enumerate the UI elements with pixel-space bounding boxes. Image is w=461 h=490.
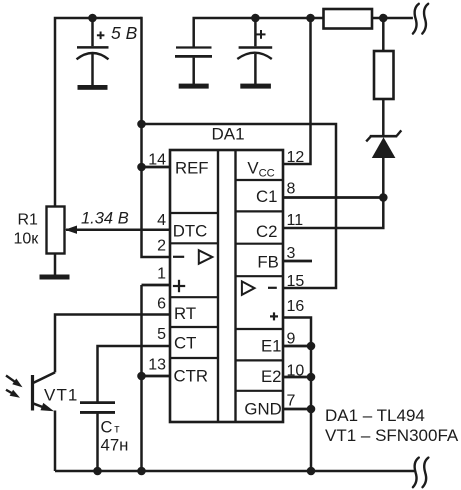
label 47n value: [101, 435, 129, 454]
wire pin 7 stub: [283, 408, 311, 411]
wire R3 to zener: [382, 99, 385, 136]
svg-text:GND: GND: [244, 399, 281, 418]
wire CT cap to pin 5: [98, 346, 171, 402]
pin number 3: [287, 245, 296, 262]
wire Vcc rail top-middle: [194, 18, 324, 47]
svg-text:13: 13: [148, 357, 166, 374]
node junction dot R3 top: [379, 14, 388, 23]
pin number 13: [148, 357, 166, 374]
svg-text:5 В: 5 В: [111, 23, 138, 43]
wire REF rail top-left: [55, 18, 142, 207]
pin number 15: [287, 273, 305, 290]
label VT1 SFN300FA: [325, 426, 459, 445]
svg-text:8: 8: [287, 181, 296, 198]
wire R3 top lead: [382, 18, 385, 51]
amp triangle error amp 1: [199, 250, 213, 263]
svg-text:47н: 47н: [101, 435, 129, 454]
wire pin 3 stub: [283, 260, 312, 263]
svg-text:CT: CT: [174, 334, 196, 353]
capacitor C1 electrolytic 5V: [77, 18, 109, 86]
ground bar under C1: [78, 85, 108, 90]
wire pin 1 stub: [142, 284, 171, 287]
svg-text:E2: E2: [261, 367, 282, 386]
node junction dot 5V cap to rail: [88, 14, 97, 23]
ground bar under C2: [179, 84, 209, 89]
svg-text:10: 10: [287, 363, 305, 380]
label C2: [256, 222, 277, 241]
wire R1 bottom lead: [54, 254, 57, 276]
wire R1 wiper to pin 4 DTC: [65, 226, 170, 234]
svg-text:DA1: DA1: [212, 125, 245, 144]
svg-text:10к: 10к: [14, 231, 40, 248]
label R1: [18, 212, 39, 229]
transistor VT1 optocoupler phototransistor: [33, 372, 56, 471]
label E2: [261, 367, 282, 386]
wire rail right of R2: [372, 17, 413, 20]
wire pin 9 stub: [283, 345, 311, 348]
capacitor C3 electrolytic plus sign: [257, 30, 266, 39]
capacitor CT timing: [80, 403, 115, 471]
label Vcc: [247, 159, 274, 180]
svg-text:5: 5: [157, 326, 166, 343]
svg-text:DA1 – TL494: DA1 – TL494: [325, 406, 425, 425]
node junction dot pin 10: [307, 373, 316, 382]
label CT capacitor: [101, 418, 121, 436]
node junction dot CT to rail: [93, 467, 102, 476]
svg-text:R1: R1: [18, 212, 39, 229]
resistor R3 vertical: [374, 51, 394, 99]
resistor R1 potentiometer: [47, 207, 65, 254]
svg-text:3: 3: [287, 245, 296, 262]
wire pin 10 stub: [283, 376, 311, 379]
pin number 16: [287, 298, 305, 315]
pin number 9: [287, 331, 296, 348]
svg-text:V: V: [247, 159, 259, 178]
svg-text:14: 14: [148, 152, 166, 169]
label VT1: [44, 385, 78, 404]
label DTC: [173, 222, 208, 241]
light arrow 2 into VT1: [6, 390, 20, 398]
node junction dot pin 7: [307, 405, 316, 414]
wire lower-left vertical pin1 to rail: [140, 285, 143, 471]
svg-text:VT1 – SFN300FA: VT1 – SFN300FA: [325, 426, 459, 445]
label 5 V: [111, 23, 138, 43]
capacitor C1 electrolytic 5V plus sign: [97, 32, 105, 40]
label E1: [261, 337, 282, 356]
wire pin 16 to emitters chain: [283, 318, 311, 472]
capacitor C3 electrolytic: [237, 18, 272, 85]
svg-text:1: 1: [157, 266, 166, 283]
svg-text:CC: CC: [259, 168, 275, 180]
break squiggle top right: [413, 4, 428, 34]
zener diode VD1: [366, 130, 401, 158]
wire bottom common rail: [55, 470, 415, 473]
node junction dot lower-left vertical to rail: [137, 467, 146, 476]
label DA1 TL494: [325, 406, 425, 425]
svg-text:E1: E1: [261, 337, 282, 356]
pin number 12: [287, 149, 305, 166]
resistor R2 top: [324, 9, 373, 29]
svg-text:11: 11: [287, 212, 304, 229]
capacitor C2 ceramic: [175, 48, 212, 85]
ground bar under R1: [40, 275, 70, 280]
svg-text:RT: RT: [174, 304, 196, 323]
label REF: [175, 159, 209, 178]
label 1.34 V: [81, 209, 129, 227]
label C1: [256, 187, 277, 206]
svg-text:4: 4: [157, 212, 166, 229]
wire zener to pins 8 and 11: [283, 157, 383, 228]
break squiggle bottom right: [413, 458, 429, 488]
op-amp U1 IC DA1 outer box: [170, 150, 283, 422]
label 10k value: [14, 231, 40, 248]
svg-text:12: 12: [287, 149, 305, 166]
svg-text:16: 16: [287, 298, 305, 315]
label DA1: [212, 125, 245, 144]
pin number 8: [287, 181, 296, 198]
wire Vcc drop to pin 12: [283, 18, 311, 164]
light arrow 1 into VT1: [6, 376, 23, 388]
IC right column dividers: [236, 180, 284, 391]
label GND: [244, 399, 281, 418]
node junction dot pin 13: [137, 372, 146, 381]
svg-text:2: 2: [157, 238, 166, 255]
svg-text:C1: C1: [256, 187, 277, 206]
svg-text:C2: C2: [256, 222, 277, 241]
pin number 11: [287, 212, 304, 229]
label CT: [174, 334, 196, 353]
amp triangle error amp 2: [242, 281, 255, 294]
svg-text:REF: REF: [175, 159, 209, 178]
pin number 5: [157, 326, 166, 343]
wire left vertical to pin 2: [142, 17, 171, 257]
pin number 14: [148, 152, 166, 169]
wire REF to pin 15 link: [142, 124, 337, 288]
wire pin 14 stub: [142, 166, 171, 169]
label minus error amp 2: [268, 287, 277, 289]
pin number 6: [157, 296, 166, 313]
node junction dot pin 14: [137, 163, 146, 172]
svg-text:15: 15: [287, 273, 305, 290]
label FB: [257, 253, 278, 272]
ground bar under C3: [240, 84, 271, 89]
node junction dot Vcc drop: [306, 14, 315, 23]
label CTR: [174, 367, 209, 386]
label plus error amp 2: [270, 312, 278, 320]
svg-text:VT1: VT1: [44, 385, 78, 404]
wire pin 13 stub: [142, 375, 171, 378]
node junction dot zener pin8: [379, 193, 388, 202]
svg-text:т: т: [114, 423, 120, 435]
wire VT1 collector to pin 6 RT: [55, 315, 170, 373]
svg-text:9: 9: [287, 331, 296, 348]
node junction dot C3 to rail: [251, 14, 260, 23]
label RT: [174, 304, 196, 323]
pin number 4: [157, 212, 166, 229]
label minus error amp 1: [173, 256, 184, 258]
node junction dot pin 9: [307, 342, 316, 351]
svg-text:6: 6: [157, 296, 166, 313]
svg-text:7: 7: [287, 393, 296, 410]
svg-text:1.34 В: 1.34 В: [81, 209, 129, 227]
node junction dot emitter chain to rail: [307, 467, 316, 476]
svg-text:DTC: DTC: [173, 222, 208, 241]
svg-text:C: C: [101, 418, 113, 436]
IC left column dividers: [170, 213, 218, 358]
label plus error amp 1: [173, 280, 185, 292]
svg-text:CTR: CTR: [174, 367, 209, 386]
svg-text:FB: FB: [257, 253, 278, 272]
wire pin 8 stub: [283, 196, 383, 199]
pin number 1: [157, 266, 166, 283]
pin number 2: [157, 238, 166, 255]
pin number 10: [287, 363, 305, 380]
node junction dot REF feedback wire: [137, 120, 146, 129]
pin number 7: [287, 393, 296, 410]
